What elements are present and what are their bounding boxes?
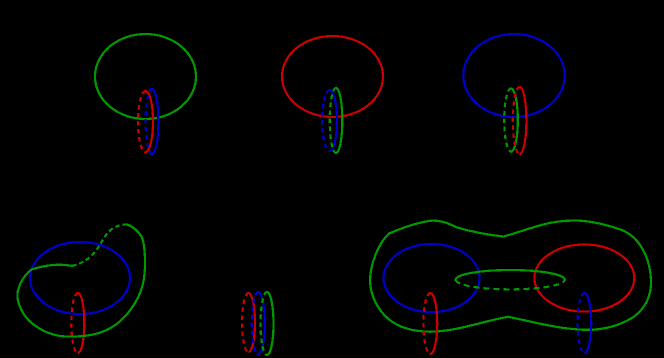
torus 2 meridian a (blue, back half dashed) bbox=[322, 90, 337, 151]
bottom-middle: red meridian (back half dashed) bbox=[242, 293, 255, 352]
genus-2: green separating curve (middle), back half dashed bbox=[456, 280, 565, 290]
genus-2: red curve around right handle bbox=[534, 245, 634, 312]
torus 3 longitude curve (blue large ellipse) bbox=[463, 34, 564, 117]
bottom-left torus: green (1,1)-curve, hidden back part (dashed) bbox=[72, 224, 127, 265]
torus 1 meridian b (blue, back half dashed) bbox=[146, 89, 159, 154]
bottom-middle: blue meridian (back half dashed) bbox=[252, 292, 265, 354]
bottom-middle: green meridian (back half dashed) bbox=[261, 292, 274, 355]
genus-2 surface: green boundary curve (peanut outline) bbox=[370, 220, 651, 331]
genus-2: green separating curve (middle), front half solid bbox=[456, 270, 565, 280]
genus-2: red meridian on left handle (back half dashed) bbox=[423, 293, 437, 354]
torus 2 longitude curve (red large ellipse) bbox=[282, 36, 383, 117]
torus 1 longitude curve (green large ellipse) bbox=[95, 34, 196, 119]
bottom-left torus: red meridian (back half dashed) bbox=[71, 293, 84, 353]
torus 3 meridian a (green, back half dashed) bbox=[504, 89, 518, 152]
genus-2: blue meridian on right handle (back half dashed) bbox=[578, 293, 592, 353]
torus 2 meridian b (green, back half dashed) bbox=[330, 88, 343, 153]
bottom-left torus: green (1,1)-curve, solid front part bbox=[17, 224, 145, 336]
genus-2: blue curve around left handle bbox=[384, 244, 480, 312]
torus 3 meridian b (red, back half dashed) bbox=[513, 87, 527, 154]
bottom-left torus: blue longitude ellipse bbox=[30, 242, 130, 314]
torus 1 meridian a (red, back half dashed) bbox=[138, 91, 153, 152]
